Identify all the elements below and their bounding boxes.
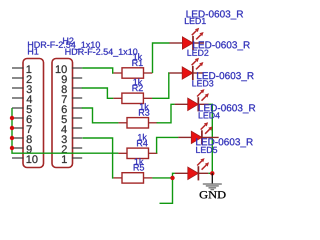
wire H1 pins5-9 bus to R4 [12, 108, 118, 153]
wire LED3 cathode to GND bus [208, 104, 212, 173]
label H2 refdes [63, 38, 73, 44]
resistor R2 1k [113, 93, 152, 103]
label LED1 package LED-0603_R [187, 10, 244, 19]
label R4 value 1k [138, 134, 147, 141]
H1 pin numbers 1-10 [27, 65, 38, 163]
H2 pin numbers 10-1 [56, 65, 67, 163]
LED LED3 symbol [175, 89, 209, 111]
resistor R5 1k [113, 173, 152, 183]
resistor R1 1k [113, 68, 152, 78]
wire H2 pin3 to R5 [82, 138, 113, 178]
label H1 refdes [28, 48, 38, 54]
label LED5 refdes [196, 147, 217, 153]
label R3 value 1k [140, 103, 149, 110]
label R5 refdes [134, 164, 144, 170]
label R2 refdes [132, 85, 142, 91]
label R1 refdes [132, 60, 142, 66]
wire LED5 cathode to GND node [208, 172, 212, 174]
wire R2 to LED2 anode [152, 73, 169, 98]
LED LED2 symbol [169, 58, 203, 80]
junction dot R5/LED5 node [170, 176, 174, 180]
wire R5 to junction [152, 177, 172, 179]
wire R3 to LED3 anode [157, 104, 175, 123]
wire junction to LED5 anode [173, 173, 175, 178]
connector H2 body [52, 59, 73, 168]
LED LED1 symbol [169, 28, 204, 50]
label R5 value 1k [135, 158, 144, 165]
resistor R3 1k [118, 118, 157, 128]
LED LED5 symbol [175, 158, 209, 180]
label GND [200, 191, 226, 198]
label LED4 package LED-0603_R [199, 104, 256, 113]
wire H2 pin6 to R3 [82, 108, 119, 123]
label H1 package HDR-F-2.54_1x10 [28, 42, 100, 50]
label LED2 refdes [188, 50, 209, 56]
label H2 package HDR-F-2.54_1x10 [65, 49, 137, 57]
wire R4 to LED4 anode [157, 137, 179, 153]
LED LED4 symbol [178, 122, 218, 144]
label R4 refdes [137, 140, 148, 146]
H2 pins 10-1 stubs [72, 68, 82, 158]
junction dot H1 pin8 [10, 136, 14, 140]
label LED5 package LED-0603_R [196, 138, 253, 147]
ground GND symbol [203, 173, 222, 190]
label LED2 package LED-0603_R [193, 41, 250, 50]
connector H1 body [23, 59, 44, 168]
resistor R4 1k [118, 148, 157, 158]
junction dot GND node [210, 171, 214, 175]
wire stub from junction down-left [160, 178, 173, 203]
label LED3 refdes [192, 80, 213, 86]
label R1 value 1k [133, 53, 142, 60]
wire R1 to LED1 anode [153, 43, 170, 73]
junction dot H1 pin6 [10, 116, 14, 120]
label LED3 package LED-0603_R [197, 72, 254, 81]
label LED1 refdes [185, 18, 206, 24]
H1 pins 1-10 stubs [12, 68, 24, 158]
wire H2 pin10 to R1 [82, 68, 113, 73]
label LED4 refdes [199, 112, 220, 118]
label R3 refdes [139, 109, 149, 115]
label R2 value 1k [133, 79, 142, 86]
junction dot H1 pin9 [10, 146, 14, 150]
wire H2 pin8 to R2 [82, 88, 114, 98]
junction dot H1 pin7 [10, 126, 14, 130]
